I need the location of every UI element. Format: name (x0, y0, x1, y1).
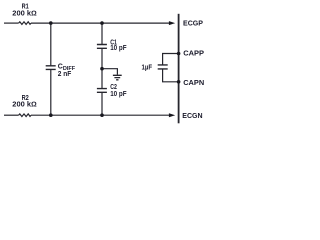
node R1/CDIFF top junction (49, 21, 53, 25)
wire Cdiff branch bottom (50, 69, 52, 115)
wire middle branch top (101, 23, 103, 44)
wire ground branch (102, 69, 117, 75)
svg-text:ECGP: ECGP (183, 19, 203, 28)
node CAPP (177, 52, 181, 56)
svg-text:1µF: 1µF (142, 65, 153, 72)
svg-text:ECGN: ECGN (182, 111, 202, 120)
wire bottom rail right segment (31, 114, 169, 116)
wire middle branch mid (101, 48, 103, 88)
svg-text:CAPP: CAPP (183, 48, 204, 57)
node C2 bottom junction (100, 113, 104, 117)
ground (113, 75, 122, 80)
node CAPN (177, 80, 181, 84)
resistor R1 (19, 22, 31, 25)
arrowhead into ECGP (169, 21, 175, 25)
capacitor C1 plates (97, 45, 107, 49)
wire 1uF branch top (163, 54, 179, 65)
node R2/CDIFF bottom junction (49, 113, 53, 117)
svg-text:R1: R1 (22, 4, 29, 11)
svg-text:200 kΩ: 200 kΩ (12, 102, 37, 109)
wire top rail left segment (4, 22, 19, 24)
svg-text:10 pF: 10 pF (110, 45, 127, 52)
wire Cdiff branch top (50, 23, 52, 66)
capacitor C2 plates (97, 89, 107, 93)
capacitor 1uF plates (158, 65, 168, 69)
svg-text:10 pF: 10 pF (110, 91, 127, 98)
svg-text:CAPN: CAPN (183, 78, 204, 87)
arrowhead into ECGN (169, 113, 175, 117)
capacitor CDIFF plates (46, 66, 56, 70)
node C1 top junction (100, 21, 104, 25)
wire 1uF branch bottom (163, 69, 179, 82)
wire bottom rail left segment (4, 114, 19, 116)
resistor R2 (19, 114, 31, 117)
node C1/C2 midpoint junction (100, 67, 104, 71)
wire middle branch bottom (101, 92, 103, 115)
svg-text:2 nF: 2 nF (58, 71, 72, 78)
wire device edge vertical bar (178, 14, 180, 124)
wire top rail right segment (31, 22, 169, 24)
svg-text:200 kΩ: 200 kΩ (12, 11, 37, 18)
